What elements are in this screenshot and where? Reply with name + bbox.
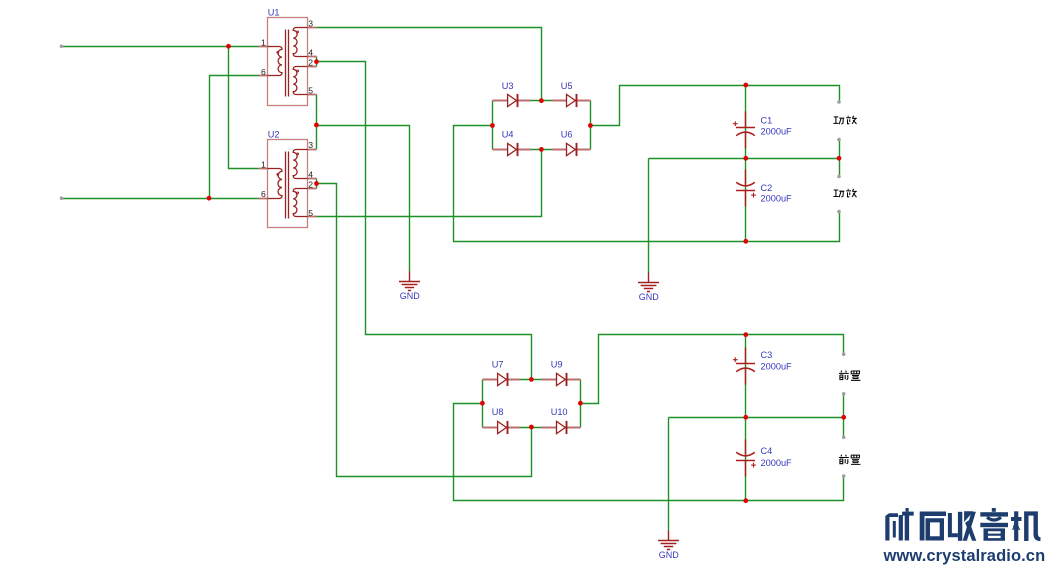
wire lower bridge left edge: [482, 380, 484, 428]
wire node CT to GND1: [317, 126, 410, 272]
wire AC input bottom: [62, 198, 259, 200]
junction U1 mid tap: [314, 59, 319, 64]
wire upper mid rail to GND2: [648, 159, 650, 273]
watermark logo text (CJK, hand drawn): [885, 508, 1040, 541]
junction lower mid rail output: [841, 415, 846, 420]
diode U10: [542, 421, 581, 434]
wire C4 branch: [745, 418, 747, 501]
open terminal pre +V: [842, 352, 846, 356]
wire U1 mid tap to lower bridge AC top: [317, 62, 532, 380]
wire C3 branch: [745, 335, 747, 418]
diode U9: [542, 373, 581, 386]
svg-text:www.crystalradio.cn: www.crystalradio.cn: [883, 547, 1046, 565]
wire U2 pin 3 up to node CT: [316, 126, 318, 150]
junction upper bridge plus: [588, 123, 593, 128]
junction lower bridge AC top: [529, 377, 534, 382]
diode U7: [483, 373, 521, 386]
svg-text:U1: U1: [268, 8, 280, 18]
diode U6: [552, 143, 591, 156]
junction center tap CT: [314, 123, 319, 128]
wire upper bridge bottom row: [493, 149, 591, 151]
net label preamp output 1 (CJK): [839, 371, 860, 381]
junction mid rail C3/C4: [743, 415, 748, 420]
svg-text:3: 3: [308, 140, 313, 150]
wire U1 pin 6 to bottom input: [210, 76, 259, 199]
junction upper bridge minus: [490, 123, 495, 128]
junction lower bridge plus: [578, 401, 583, 406]
svg-text:6: 6: [261, 189, 266, 199]
svg-text:U9: U9: [551, 359, 563, 369]
svg-text:2: 2: [308, 57, 313, 67]
transformer U2: [259, 140, 317, 228]
open terminal amp 0V a: [837, 138, 841, 142]
wire C1 branch: [745, 86, 747, 159]
svg-text:1: 1: [261, 37, 266, 47]
svg-text:4: 4: [308, 170, 313, 180]
open terminal amp +V: [837, 100, 841, 104]
open terminal pre 0V b: [842, 436, 846, 440]
svg-text:2000uF: 2000uF: [761, 127, 793, 137]
svg-text:GND: GND: [659, 550, 680, 560]
ground: [638, 273, 659, 292]
junction upper mid rail output: [837, 156, 842, 161]
ground: [658, 531, 679, 550]
net label amp output 2 (CJK): [833, 189, 856, 197]
wire upper bridge top row: [493, 100, 591, 102]
diode U5: [552, 94, 591, 107]
svg-text:U8: U8: [492, 407, 504, 417]
open terminal amp -V: [837, 210, 841, 214]
net label preamp output 2 (CJK): [839, 455, 860, 465]
junction input bottom / U1.6: [207, 196, 212, 201]
wire U1 pin 5 down to node CT: [316, 95, 318, 126]
wire upper bridge right edge: [590, 101, 592, 150]
open terminal amp 0V b: [837, 175, 841, 179]
wire input to U2 pin 1: [229, 47, 259, 169]
junction C3 top: [743, 332, 748, 337]
wire U2 pin 4-2 jumper: [316, 179, 318, 189]
svg-text:U10: U10: [551, 407, 568, 417]
junction upper bridge AC top: [539, 98, 544, 103]
svg-text:5: 5: [308, 208, 313, 218]
wire lower mid rail to GND3: [668, 418, 670, 531]
svg-text:U7: U7: [492, 359, 504, 369]
net label amp output 1 (CJK): [833, 116, 856, 124]
open terminal pre 0V a: [842, 392, 846, 396]
open terminal pre -V: [842, 474, 846, 478]
svg-text:C2: C2: [761, 183, 773, 193]
wire lower minus rail: [454, 404, 844, 501]
open terminal AC in bottom: [60, 196, 64, 200]
wire lower mid rail: [669, 417, 844, 419]
wire lower bridge right edge: [580, 380, 582, 428]
svg-text:GND: GND: [639, 292, 660, 302]
junction lower bridge minus: [480, 401, 485, 406]
svg-text:U3: U3: [502, 81, 514, 91]
svg-text:C3: C3: [761, 350, 773, 360]
svg-text:GND: GND: [400, 291, 421, 301]
open terminal AC in top: [60, 45, 64, 49]
transformer U1: [259, 18, 317, 106]
junction upper bridge AC bottom: [539, 147, 544, 152]
diode U3: [493, 94, 531, 107]
capacitor C3: [733, 348, 755, 385]
wire upper mid rail: [649, 158, 840, 160]
wire AC input top: [62, 46, 259, 48]
svg-text:U2: U2: [268, 129, 280, 139]
svg-text:1: 1: [261, 160, 266, 170]
wire lower output mid stub: [843, 394, 845, 438]
wire U1 pin 4-2 jumper: [316, 57, 318, 67]
junction C2 bottom: [743, 239, 748, 244]
junction C4 bottom: [743, 498, 748, 503]
wire U1 pin 3 to upper bridge AC top: [317, 28, 542, 101]
wire lower bridge bottom row: [483, 427, 581, 429]
junction C1 top: [743, 83, 748, 88]
junction input top / U2 feed: [226, 44, 231, 49]
svg-text:C4: C4: [761, 446, 773, 456]
svg-text:6: 6: [261, 67, 266, 77]
junction mid rail C1/C2: [743, 156, 748, 161]
ground: [399, 272, 420, 291]
svg-text:5: 5: [308, 86, 313, 96]
junction lower bridge AC bottom: [529, 425, 534, 430]
svg-text:C1: C1: [761, 116, 773, 126]
svg-text:4: 4: [308, 48, 313, 58]
svg-text:2: 2: [308, 180, 313, 190]
svg-text:U5: U5: [561, 81, 573, 91]
capacitor C2: [736, 170, 756, 207]
svg-text:U4: U4: [502, 129, 514, 139]
wire U2 pin 5 to upper bridge AC bottom: [317, 150, 542, 217]
wire upper output mid stub: [839, 140, 841, 177]
wire C2 branch: [745, 159, 747, 242]
wire lower plus rail: [581, 335, 844, 404]
wire upper plus rail: [591, 86, 840, 126]
svg-text:2000uF: 2000uF: [761, 194, 793, 204]
svg-text:2000uF: 2000uF: [761, 361, 793, 371]
diode U4: [493, 143, 531, 156]
svg-text:3: 3: [308, 18, 313, 28]
junction U2 mid tap: [314, 181, 319, 186]
capacitor C4: [736, 440, 756, 477]
svg-text:2000uF: 2000uF: [761, 458, 793, 468]
wire upper minus rail: [454, 126, 840, 242]
wire upper bridge left edge: [492, 101, 494, 150]
wire lower bridge top row: [483, 379, 581, 381]
svg-text:U6: U6: [561, 129, 573, 139]
diode U8: [483, 421, 521, 434]
wire U2 mid tap to lower bridge AC bottom: [317, 184, 532, 477]
capacitor C1: [733, 112, 755, 149]
